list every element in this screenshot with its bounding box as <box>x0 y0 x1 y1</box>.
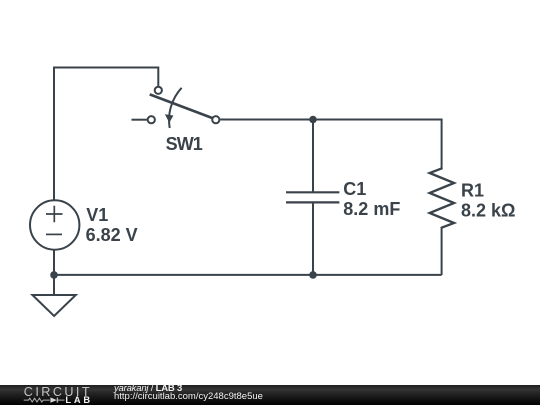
voltage source V1 <box>30 200 79 249</box>
svg-text:SW1: SW1 <box>166 134 203 154</box>
footer title text <box>114 384 182 394</box>
wire left rail <box>53 67 55 201</box>
wire drop to switch throw <box>157 67 159 87</box>
svg-text:C1: C1 <box>343 179 366 199</box>
wire V1 bottom lead <box>53 249 55 275</box>
svg-text:LAB: LAB <box>65 395 93 405</box>
wire resistor to bottom rail <box>441 228 443 275</box>
svg-text:8.2 kΩ: 8.2 kΩ <box>461 200 515 220</box>
node junction at capacitor bottom <box>309 271 317 279</box>
svg-text:R1: R1 <box>461 181 484 201</box>
wire switch common to right corner <box>220 119 442 121</box>
ground <box>32 295 75 316</box>
wire capacitor top lead <box>312 120 314 193</box>
svg-text:6.82 V: 6.82 V <box>86 225 138 245</box>
wire ground stub <box>53 275 55 295</box>
wire capacitor bottom lead <box>312 202 314 275</box>
footer bar <box>0 385 540 405</box>
switch SW1 <box>148 87 220 128</box>
footer url text <box>114 392 263 402</box>
wire bottom rail <box>54 274 442 276</box>
capacitor C1 <box>286 192 339 202</box>
wire top rail <box>53 67 158 69</box>
resistor R1 <box>430 168 455 228</box>
wire right drop to resistor <box>441 119 443 169</box>
node junction at V1 bottom <box>50 271 58 279</box>
svg-text:V1: V1 <box>86 205 108 225</box>
node junction at capacitor top <box>309 116 317 124</box>
wire stub left throw <box>132 119 148 121</box>
svg-text:8.2 mF: 8.2 mF <box>343 199 400 219</box>
CircuitLab logo <box>0 385 100 405</box>
